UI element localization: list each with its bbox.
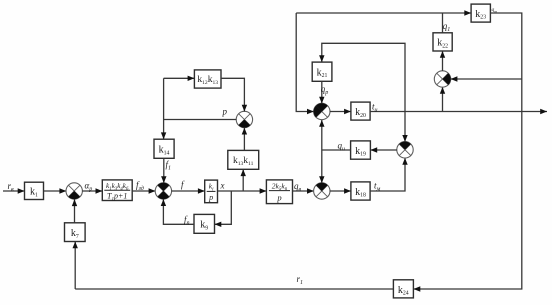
summing junction S1 — [66, 183, 82, 199]
wire sumP output left to node column — [164, 119, 237, 121]
wire branch t_i down into sumC top — [404, 112, 406, 142]
wire top line right to k23 — [443, 12, 472, 14]
wire sum2 to integrator, label f — [171, 190, 204, 192]
block k21 — [312, 62, 332, 81]
wire integrator to 2k block, label x — [218, 190, 267, 192]
wire k20 output t_i long line to right edge — [370, 111, 547, 113]
block k18 — [351, 182, 370, 200]
block k12k13 — [194, 70, 221, 88]
wire branch x down to k9 — [215, 191, 232, 224]
summing junction S2 — [155, 183, 171, 199]
block k9 — [194, 214, 215, 233]
block k7 — [65, 223, 86, 242]
wire k21 down to sumA top, label q_p — [321, 81, 323, 103]
svg-text:p: p — [222, 107, 228, 117]
block k1 — [25, 182, 44, 199]
block integrator k_i over p — [205, 180, 218, 203]
summing junction SB — [434, 71, 450, 87]
block W1 transfer function k k k k over T p+1 — [102, 180, 132, 201]
wire k14 down to sum2 top, label f_1 — [163, 158, 165, 183]
wire q_i down into sumD top — [321, 150, 323, 183]
wire sumA to k20 — [330, 111, 351, 113]
wire branch right column into sumB right — [451, 78, 522, 80]
svg-text:p: p — [208, 193, 213, 202]
wire k18 right and up to sumC bottom, label t_m — [370, 158, 405, 191]
wire top line left from k22 node to sumA column — [296, 12, 442, 14]
wire sumB up to k22 — [442, 51, 444, 71]
wire k23 output right and down the right side — [414, 13, 522, 289]
block k13k11 — [228, 150, 259, 169]
wire k19 left, label q_i, split up to sumA and down to sumD — [322, 149, 351, 151]
wire branch t_i up and left into k21 — [322, 43, 405, 111]
summing junction SC — [397, 142, 413, 158]
block k23 — [471, 4, 490, 22]
wire W1 to sum2, label f_zd — [132, 190, 155, 192]
wire q_i up into sumA bottom — [321, 120, 323, 150]
wire down left column into sumA left — [296, 13, 314, 112]
summing junction SP, label p — [236, 111, 252, 127]
wire sum1 to transfer block, label alpha_p — [82, 190, 102, 192]
wire sumD to k18 — [330, 190, 351, 192]
block k24 — [393, 280, 413, 298]
wire sumC output left to k19 — [370, 149, 397, 151]
wire k13k11 up to sumP bottom — [243, 128, 245, 151]
block k22 — [433, 33, 452, 51]
wire bottom feedback up to k7 — [74, 242, 76, 290]
wire branch t_i up into sumB bottom — [442, 87, 444, 112]
wire input r_v to k1 — [3, 190, 25, 192]
wire k7 up to sum1 bottom — [74, 199, 76, 223]
wire k1 to sum1 — [44, 190, 67, 192]
wire k9 to sum2 bottom, label f_p — [163, 199, 194, 224]
block k14 — [154, 139, 174, 158]
svg-text:x: x — [220, 181, 225, 191]
summing junction SD — [314, 183, 330, 199]
wire 2k block to sumD, label q_v — [293, 190, 314, 192]
wire k12k13 to sumP top — [221, 78, 244, 111]
wire branch x up to k13k11 — [242, 169, 244, 191]
wire node column top to k12k13 — [164, 77, 195, 79]
block k20 — [351, 102, 370, 120]
block 2k_x k_n over p — [266, 180, 292, 204]
summing junction SA — [314, 103, 330, 119]
svg-text:p: p — [276, 193, 281, 203]
block k19 — [351, 141, 371, 159]
wire k24 output left along bottom, label r_1 — [75, 288, 393, 290]
wire node column vertical down to k14 — [163, 78, 165, 139]
wire k22 up to top line, label q_1 — [442, 13, 444, 33]
